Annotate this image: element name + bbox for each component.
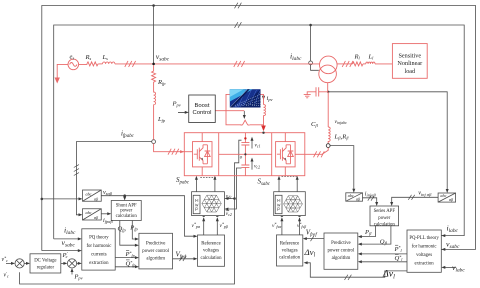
wire gate dashed bus right [282, 175, 297, 177]
wire gate S_sabc left [278, 178, 280, 191]
wire v_inj measure [328, 92, 447, 191]
wire v_dc into PWM [227, 198, 235, 200]
wire v_dc sense from C1 [20, 140, 242, 284]
wire v_pbeta* [216, 218, 218, 235]
wire i_labc tap to transformer [311, 65, 319, 71]
wire inverter output stub [295, 153, 305, 155]
svg-text:power: power [120, 209, 132, 214]
node i_fpabc measuring circle [152, 140, 156, 144]
slash v_inj [408, 195, 414, 200]
svg-text:currents: currents [91, 253, 107, 258]
svg-text:Sensitive: Sensitive [398, 53, 421, 60]
svg-text:calculation: calculation [200, 256, 222, 261]
slash 3ph top bus [235, 3, 242, 9]
wire i_fpalphabeta into shunt calc [101, 213, 108, 215]
svg-text:Reference: Reference [201, 241, 220, 246]
inverter mid rail [219, 153, 272, 155]
wire v_fsalpha* [281, 218, 283, 235]
wire transformer to R_l [337, 63, 352, 65]
svg-text:abc: abc [348, 193, 354, 198]
block Series APF power calculation [370, 206, 399, 226]
PWM block right [274, 192, 306, 216]
node i_inj measuring circle [326, 144, 330, 148]
wire to load [375, 63, 392, 65]
wire v_fsbeta* [299, 218, 301, 235]
wire v_salphabeta branch to shunt calc [124, 196, 126, 198]
block Predictive left [139, 233, 173, 269]
wire gate S_pabc left [195, 178, 197, 191]
svg-text:calculation: calculation [116, 214, 138, 219]
wire main ac line [115, 63, 320, 65]
block abc-alphabeta vs [83, 190, 102, 201]
svg-text:Reference: Reference [280, 241, 299, 246]
boost inductor [264, 105, 266, 120]
block PQ-PLL [407, 230, 441, 272]
wire i_inj alphabeta to series calc [363, 198, 377, 204]
wire boost control output [215, 110, 244, 112]
slash 3ph series output [314, 151, 325, 157]
svg-text:Qfp: Qfp [118, 226, 127, 233]
wire v_labc input stub [444, 266, 456, 268]
svg-text:Qfl: Qfl [380, 238, 388, 245]
wire [98, 63, 102, 65]
svg-text:DC Voltage: DC Voltage [34, 259, 56, 264]
wire v_c2 sense from C2 [227, 168, 242, 209]
block Shunt APF power calculation [111, 201, 141, 221]
transformer upper circle [320, 56, 338, 74]
wire boost gate [243, 111, 245, 116]
svg-text:voltages: voltages [282, 249, 298, 254]
svg-text:Rs: Rs [85, 54, 92, 61]
text abc/ab boxes [85, 191, 454, 220]
wire Q_fp [120, 221, 137, 246]
wire DC reg to sum2 [61, 262, 65, 264]
wire v_palpha* [203, 218, 205, 235]
IGBT sub-box right [276, 142, 296, 167]
ground [304, 95, 311, 98]
wire v_sabc top bus [42, 6, 476, 251]
capacitor C_fl plates [316, 87, 319, 96]
node v_sabc top bus junction [152, 4, 155, 7]
svg-text:Rfp: Rfp [157, 79, 166, 86]
node v_inj junction [327, 91, 329, 93]
wire transformer secondary down [319, 83, 328, 92]
wire V_fref [305, 238, 324, 240]
ground neutral arrow [57, 64, 68, 78]
svg-text:vinjabc: vinjabc [335, 119, 348, 125]
wire P*_fp [115, 257, 136, 259]
svg-text:power control: power control [142, 249, 169, 254]
wire v_sabc into PQ theory [42, 250, 79, 252]
block abc-alphabeta iinj [346, 193, 363, 201]
summing node 2 [67, 259, 76, 268]
inverter divider left [218, 133, 220, 176]
boost switch [241, 120, 264, 125]
dc-link column [244, 133, 246, 176]
wire v_c* input stub [6, 262, 13, 264]
wire cap to ground [307, 92, 316, 95]
capacitor C2 [241, 165, 249, 167]
slash 3ph i_fp drop [74, 165, 79, 176]
slash i_inj [368, 196, 374, 201]
summing node 1 [15, 259, 24, 268]
svg-text:calculation: calculation [374, 223, 396, 228]
wire i_labc sense drop [310, 25, 312, 61]
resistor R_s [87, 62, 98, 66]
svg-text:for harmonic: for harmonic [412, 245, 437, 250]
slash 3ph main line 2 [234, 61, 245, 67]
block Reference voltages left [198, 235, 225, 266]
slash 3ph inner bus [235, 22, 242, 28]
wire sum1 to DC regulator [24, 262, 27, 264]
wire inverter input stub [184, 151, 192, 153]
block Reference voltages right [277, 235, 303, 266]
block abc-alphabeta ifp [83, 209, 102, 220]
PV wiring left terminal [226, 94, 241, 124]
node i_labc measuring circle [309, 61, 313, 65]
wire P_fl [360, 226, 375, 237]
wire sum2 to PQ theory [77, 262, 80, 264]
svg-text:load: load [404, 68, 416, 75]
resistor R_fp vertical [152, 65, 156, 84]
svg-text:power: power [378, 216, 390, 221]
wire C_fl branch down [327, 92, 329, 127]
block DC Voltage regulator [30, 254, 61, 273]
svg-text:abc: abc [85, 191, 91, 196]
PWM block left [192, 192, 225, 216]
svg-text:Lfp: Lfp [157, 116, 166, 123]
IGBT Q left [194, 145, 210, 164]
wire series APF output [305, 148, 328, 155]
svg-text:voltages: voltages [203, 249, 219, 254]
node V_sabc junction [152, 63, 155, 66]
source e_s [68, 59, 79, 70]
svg-text:Ppv: Ppv [172, 101, 181, 108]
load box [392, 44, 427, 79]
svg-text:regulator: regulator [37, 265, 55, 270]
svg-text:for harmonic: for harmonic [86, 244, 111, 249]
svg-text:Lfl,Rfl: Lfl,Rfl [334, 134, 350, 141]
arrowheads [78, 249, 82, 252]
IGBT sub-box left [193, 142, 213, 167]
block Predictive right [324, 233, 358, 269]
wire P_pv stub [71, 271, 73, 275]
svg-text:Ll: Ll [368, 54, 375, 61]
svg-text:algorithm: algorithm [146, 256, 165, 261]
slash delta-v feedback [345, 275, 352, 280]
wire delta-v_l feedback [306, 263, 407, 277]
wire Q*_fp [115, 266, 136, 268]
node i_labc bus junction [309, 24, 312, 27]
inductor L_fp vertical [154, 84, 156, 140]
svg-text:Series APF: Series APF [374, 209, 396, 214]
wire gate S_pabc right [214, 178, 216, 191]
wire v_salphabeta line [101, 196, 195, 237]
wire Q*_l [360, 261, 407, 263]
svg-text:calculation: calculation [279, 256, 301, 261]
block abc-alphabeta vinj [438, 193, 456, 202]
wire [363, 63, 366, 65]
resistor R_l [353, 62, 364, 66]
svg-text:extraction: extraction [415, 262, 435, 267]
wire v_s to abc-alphabeta [42, 198, 80, 200]
block Boost Control [189, 95, 216, 123]
slash 3ph main line [125, 61, 136, 67]
PV wiring right terminal i_pv [261, 94, 264, 104]
svg-text:algorithm: algorithm [332, 256, 351, 261]
svg-text:voltages: voltages [416, 253, 432, 258]
inductor L_l [366, 62, 375, 64]
inverter outer box [184, 133, 304, 176]
inverter divider right [271, 133, 273, 176]
inductor L_s [103, 62, 115, 64]
svg-text:Ls: Ls [102, 54, 109, 61]
wire gate dashed bus left [200, 177, 216, 179]
wire v_inj alphabeta to series calc [392, 197, 438, 203]
boost diode red arrow [263, 119, 265, 126]
wire gate S_sabc right [296, 178, 298, 191]
wire i_inj measure [330, 146, 354, 191]
svg-text:Predictive: Predictive [331, 241, 350, 246]
svg-text:abc: abc [85, 210, 91, 215]
svg-text:es: es [70, 54, 75, 61]
wire V_fpd [173, 258, 196, 260]
inductor L_fl vertical [328, 127, 330, 144]
PV panel image [230, 89, 261, 107]
wire P_fp [132, 221, 136, 240]
wire L_fp to inverter [154, 144, 185, 152]
svg-text:Pfl: Pfl [364, 229, 372, 236]
wire i_labc inner bus [54, 25, 465, 239]
svg-text:Nonlinear: Nonlinear [397, 60, 422, 67]
node o midpoint [244, 153, 246, 155]
wire i_labc into PQ theory [54, 238, 79, 240]
svg-text:power control: power control [328, 249, 355, 254]
svg-text:Boost: Boost [194, 103, 209, 109]
svg-text:Shunt APF: Shunt APF [116, 203, 137, 208]
wire i_fpabc to abc-alphabeta [76, 142, 151, 215]
svg-text:Rl: Rl [354, 54, 361, 61]
wire source to R_s [79, 63, 87, 66]
block PQ theory [82, 229, 115, 270]
transformer lower circle [319, 65, 337, 83]
slash 3ph inverter input [168, 149, 179, 155]
capacitor C1 [241, 143, 249, 145]
svg-text:Pfp: Pfp [129, 225, 138, 232]
wire Q_fl [360, 226, 391, 244]
svg-text:Cfl: Cfl [311, 121, 319, 128]
svg-text:PQ-PLL theory: PQ-PLL theory [409, 236, 439, 241]
svg-text:Predictive: Predictive [146, 241, 165, 246]
wire P*_l [360, 253, 407, 255]
wire v_c2 arrow [251, 160, 253, 170]
IGBT Q right [277, 145, 293, 164]
svg-text:ipv: ipv [267, 95, 273, 102]
svg-text:abc: abc [440, 193, 446, 198]
arrowhead into inverter [180, 150, 184, 153]
svg-text:P'c: P'c [62, 251, 68, 259]
node pv dc junction [262, 132, 264, 134]
svg-text:extraction: extraction [89, 261, 109, 266]
slash V_fref [311, 236, 314, 241]
svg-text:Control: Control [193, 110, 212, 116]
svg-text:Ppv: Ppv [73, 274, 82, 281]
slash V_fpd [180, 256, 187, 261]
node dc top red dot [244, 137, 246, 139]
wire v_c1 arrow [251, 139, 253, 148]
wire v_sabc sense drop [153, 6, 155, 64]
svg-text:PQ theory: PQ theory [89, 236, 109, 241]
